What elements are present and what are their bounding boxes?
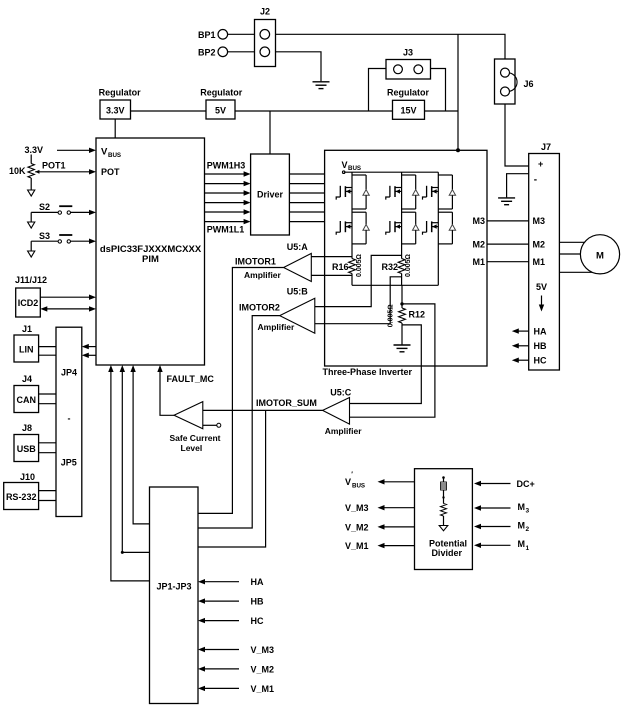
svg-text:2: 2 xyxy=(526,526,530,533)
block Driver xyxy=(251,154,290,235)
wire U5:A input top across R16 xyxy=(311,256,352,258)
wire FAULT_MC comparator output to PIM xyxy=(157,365,174,415)
svg-text:Amplifier: Amplifier xyxy=(258,322,296,332)
svg-text:R32: R32 xyxy=(381,262,398,272)
svg-text:J3: J3 xyxy=(403,48,413,58)
wire inverter leg3 xyxy=(437,172,439,285)
connector J4 CAN xyxy=(14,374,39,413)
wire BP1 to J2 xyxy=(228,33,255,35)
wire J7 to motor phase top xyxy=(559,241,586,243)
svg-text:Divider: Divider xyxy=(431,548,462,558)
svg-text:V_M2: V_M2 xyxy=(345,522,369,532)
svg-text:IMOTOR1: IMOTOR1 xyxy=(235,256,276,266)
svg-text:Three-Phase Inverter: Three-Phase Inverter xyxy=(323,367,413,377)
svg-text:Driver: Driver xyxy=(257,190,284,200)
svg-text:V: V xyxy=(345,477,351,487)
svg-text:3: 3 xyxy=(526,508,530,515)
resistor R32 0.005 ohm shunt xyxy=(381,254,412,285)
switch S2 xyxy=(28,202,73,228)
svg-text:PWM1L1: PWM1L1 xyxy=(207,224,245,234)
wire J3 right to 15V rail xyxy=(431,69,446,112)
svg-text:10K: 10K xyxy=(9,166,26,176)
wire HB into JP1-JP3 xyxy=(198,597,264,607)
regulator 15V xyxy=(387,87,430,119)
wire inverter leg1 xyxy=(351,172,353,258)
block Potential Divider xyxy=(415,469,473,570)
transistor Q5 (MOSFET with freewheel diode) xyxy=(423,175,456,209)
svg-text:J4: J4 xyxy=(22,374,32,384)
svg-text:R16: R16 xyxy=(332,262,349,272)
wire V_M1 output of potential divider xyxy=(345,541,415,551)
svg-text:BUS: BUS xyxy=(108,152,121,159)
svg-text:HB: HB xyxy=(534,341,547,351)
wire inverter leg2 xyxy=(401,172,403,258)
svg-text:0.005Ω: 0.005Ω xyxy=(356,254,363,277)
wire M2 inverter to J7 xyxy=(487,243,529,245)
wire IMOTOR_SUM branch to JP1-JP3 xyxy=(198,410,266,547)
wire power rail xyxy=(131,110,459,112)
svg-text:0.005Ω: 0.005Ω xyxy=(405,254,412,277)
svg-text:HA: HA xyxy=(251,577,264,587)
svg-text:3.3V: 3.3V xyxy=(25,145,44,155)
wire S3 to PIM xyxy=(71,239,97,244)
svg-text:HB: HB xyxy=(251,597,264,607)
svg-text:U5:C: U5:C xyxy=(330,388,352,398)
potentiometer POT1 10K xyxy=(9,155,66,197)
ground under J2 xyxy=(313,81,330,83)
wire IMOTOR2 U5:B output to JP1-JP3 xyxy=(198,316,280,528)
svg-text:S3: S3 xyxy=(39,231,50,241)
wire J2 node to inverter VBUS rail xyxy=(457,34,459,150)
wire J7 to motor phase bottom xyxy=(559,271,593,273)
node VBUS inside inverter xyxy=(342,160,362,174)
wire M2 input of potential divider xyxy=(474,520,530,533)
svg-text:+: + xyxy=(538,159,543,169)
svg-text:M1: M1 xyxy=(472,257,485,267)
wire HA into JP1-JP3 xyxy=(198,577,264,587)
regulator 5V xyxy=(200,87,243,119)
wire M3 inverter to J7 xyxy=(487,220,529,222)
svg-text:IMOTOR_SUM: IMOTOR_SUM xyxy=(256,398,317,408)
svg-text:BUS: BUS xyxy=(348,165,361,172)
terminal BP1 xyxy=(198,30,228,41)
svg-text:PIM: PIM xyxy=(142,254,159,265)
comparator Safe Current Level xyxy=(169,402,220,453)
wire U5:B input bottom from R32 bottom xyxy=(315,277,402,324)
svg-text:M: M xyxy=(518,502,526,512)
connector J6 xyxy=(495,59,534,104)
svg-text:V_M1: V_M1 xyxy=(251,684,275,694)
terminal reference input xyxy=(203,423,221,427)
wire J6 to J7 plus xyxy=(505,104,529,166)
svg-text:JP1-JP3: JP1-JP3 xyxy=(156,581,191,591)
svg-text:5V: 5V xyxy=(536,282,547,292)
transistor Q1 (MOSFET with freewheel diode) xyxy=(336,175,369,209)
svg-text:-: - xyxy=(68,413,71,423)
wire U5:C input top from R12 bottom xyxy=(350,325,422,404)
wire DC+ input of potential divider xyxy=(474,479,535,489)
svg-text:BP1: BP1 xyxy=(198,30,216,40)
connector J10 RS-232 xyxy=(4,472,39,510)
wire S2 to PIM xyxy=(71,210,97,215)
connector J11/J12 ICD2 xyxy=(15,275,47,317)
junction dot R12 top xyxy=(400,302,403,305)
svg-text:M: M xyxy=(518,539,526,549)
svg-text:R12: R12 xyxy=(409,309,426,319)
svg-text:V_M3: V_M3 xyxy=(345,503,369,513)
svg-text:DC+: DC+ xyxy=(517,479,535,489)
svg-text:HC: HC xyxy=(534,356,547,366)
wire 3.3V regulator to PIM xyxy=(114,119,116,138)
wire M3 input of potential divider xyxy=(474,502,530,515)
resistor R12 0.005 ohm shunt xyxy=(388,304,426,327)
svg-text:JP4: JP4 xyxy=(61,368,77,378)
svg-text:JP5: JP5 xyxy=(61,457,77,467)
wire 3.3V to PIM VBUS with arrow xyxy=(57,148,96,153)
svg-text:J2: J2 xyxy=(260,7,270,17)
svg-text:Level: Level xyxy=(181,443,203,453)
svg-text:J7: J7 xyxy=(541,142,551,152)
wire R12 to ground xyxy=(401,325,403,345)
svg-text:POT1: POT1 xyxy=(42,160,66,170)
wire hall sensor HB out of J7 xyxy=(512,341,547,351)
terminal BP2 xyxy=(198,47,228,57)
connector J2 xyxy=(255,7,276,67)
svg-text:J1: J1 xyxy=(22,324,32,334)
svg-text:S2: S2 xyxy=(39,202,50,212)
svg-text:5V: 5V xyxy=(215,105,226,115)
ground under R12 xyxy=(394,344,411,346)
wire U5:C input bottom from R12 top xyxy=(350,304,435,417)
svg-text:3.3V: 3.3V xyxy=(106,105,125,115)
svg-text:M3: M3 xyxy=(533,216,546,226)
wire inverter VBUS rail xyxy=(344,171,439,173)
connector J1 LIN xyxy=(14,324,39,362)
svg-text:V_M1: V_M1 xyxy=(345,541,369,551)
resistor R16 0.005 ohm shunt xyxy=(332,254,363,285)
transistor Q3 (MOSFET with freewheel diode) xyxy=(386,175,419,209)
wire bottom rail to R12 xyxy=(401,285,403,304)
svg-text:1: 1 xyxy=(526,545,530,552)
wire J3 left to 15V rail xyxy=(369,69,387,112)
motor M xyxy=(580,235,619,274)
wire J2 pin2 to ground xyxy=(276,52,322,82)
wire V_M3 into JP1-JP3 xyxy=(198,645,274,655)
svg-text:PWM1H3: PWM1H3 xyxy=(207,160,246,170)
wire V_BUS output of potential divider xyxy=(345,472,415,490)
wire J7 minus to ground xyxy=(507,174,529,198)
wire J7 to motor phase mid xyxy=(559,253,581,255)
svg-text:U5:A: U5:A xyxy=(287,242,309,252)
wire V_M2 into JP1-JP3 xyxy=(198,664,274,674)
svg-text:FAULT_MC: FAULT_MC xyxy=(167,374,215,384)
wire V_M2 output of potential divider xyxy=(345,522,415,532)
wire BP2 to J2 xyxy=(228,51,255,53)
connector J8 USB xyxy=(14,423,39,462)
wire ICD2 to PIM xyxy=(40,295,96,300)
svg-text:J11/J12: J11/J12 xyxy=(15,275,47,285)
wire JP4 to PIM upper xyxy=(82,344,96,349)
wire hall sensor HA out of J7 xyxy=(512,327,547,337)
svg-text:Regulator: Regulator xyxy=(387,87,430,97)
junction dot rail entry xyxy=(456,148,460,152)
transistor Q4 (MOSFET with freewheel diode) xyxy=(386,212,419,244)
svg-text:V: V xyxy=(342,160,348,170)
wire IMOTOR_SUM feedback to PIM xyxy=(130,365,149,524)
svg-text:Regulator: Regulator xyxy=(99,87,142,97)
op-amp U5:C amplifier xyxy=(323,388,363,436)
svg-text:M: M xyxy=(596,251,604,262)
svg-text:Amplifier: Amplifier xyxy=(244,270,282,280)
wire CAN to JP4 xyxy=(39,394,56,404)
regulator 3.3V xyxy=(99,87,142,119)
jumper block JP1-JP3 xyxy=(150,487,199,704)
wire IMOTOR1 U5:A output to JP1-JP3 xyxy=(198,268,284,514)
svg-text:POT: POT xyxy=(101,167,120,177)
transistor Q2 (MOSFET with freewheel diode) xyxy=(336,212,369,244)
wire J2 pin1 to J6 xyxy=(276,34,506,59)
svg-text:J8: J8 xyxy=(22,423,32,433)
wire hall sensor HC out of J7 xyxy=(512,356,547,366)
svg-text:BUS: BUS xyxy=(352,483,365,490)
wire IMOTOR1 feedback to PIM xyxy=(108,365,149,581)
wire POT1 wiper to PIM POT xyxy=(35,169,96,174)
wire 5V arrow inside J7 xyxy=(539,296,544,312)
module U1 dsPIC33FJXXXMCXXX PIM xyxy=(96,138,205,365)
svg-text:J10: J10 xyxy=(20,472,35,482)
wire V_M3 output of potential divider xyxy=(345,503,415,513)
svg-text:HA: HA xyxy=(534,327,547,337)
svg-text:BP2: BP2 xyxy=(198,47,216,57)
svg-text:HC: HC xyxy=(251,616,264,626)
svg-text:15V: 15V xyxy=(400,106,416,116)
svg-text:-: - xyxy=(534,175,537,186)
svg-text:V_M3: V_M3 xyxy=(251,645,275,655)
wire IMOTOR_SUM U5:C output to comparator xyxy=(203,409,323,411)
wire U5:A input bottom across R16 xyxy=(311,274,352,276)
switch S3 xyxy=(28,231,73,257)
svg-text:J6: J6 xyxy=(524,79,534,89)
svg-text:M1: M1 xyxy=(533,257,546,267)
svg-text:USB: USB xyxy=(17,444,37,454)
wire RS-232 to JP5 xyxy=(39,491,56,501)
wire IMOTOR2 feedback to PIM xyxy=(120,365,150,554)
wire PWM signals PIM to Driver xyxy=(205,171,251,224)
wire JP4 to PIM lower xyxy=(82,353,96,358)
wire USB to JP5 xyxy=(39,443,56,453)
connector J7 xyxy=(529,142,560,370)
wire U5:B input top from R32 top xyxy=(315,255,402,306)
svg-text:M: M xyxy=(518,520,526,530)
svg-text:M2: M2 xyxy=(472,239,485,249)
svg-text:M3: M3 xyxy=(472,216,485,226)
wire HC into JP1-JP3 xyxy=(198,616,264,626)
svg-text:RS-232: RS-232 xyxy=(6,492,37,502)
wire V_M1 into JP1-JP3 xyxy=(198,684,274,694)
svg-text:Regulator: Regulator xyxy=(200,87,243,97)
svg-text:U5:B: U5:B xyxy=(287,286,309,296)
op-amp U5:B amplifier xyxy=(258,286,315,333)
svg-text:LIN: LIN xyxy=(19,344,34,354)
connector J3 xyxy=(386,48,431,80)
resistor divider symbol inside xyxy=(439,476,448,531)
wire ICD2 PIM bidirectional xyxy=(40,306,96,311)
transistor Q6 (MOSFET with freewheel diode) xyxy=(423,212,456,244)
block Three-Phase Inverter xyxy=(325,150,487,366)
wire Driver outputs to inverter xyxy=(289,174,324,222)
op-amp U5:A amplifier xyxy=(244,242,311,282)
ground near J7 xyxy=(498,197,515,199)
wire LIN to JP4 xyxy=(39,347,56,356)
svg-text:V: V xyxy=(101,147,108,158)
wire rail to Driver xyxy=(269,111,271,154)
wire M1 inverter to J7 xyxy=(487,261,529,263)
svg-text:Potential: Potential xyxy=(429,538,467,548)
wire M1 input of potential divider xyxy=(474,539,530,552)
svg-text:ICD2: ICD2 xyxy=(18,298,39,308)
svg-text:CAN: CAN xyxy=(17,395,37,405)
wire inverter bottom rail xyxy=(352,284,438,286)
jumper block JP4-JP5 xyxy=(56,327,82,516)
svg-text:Safe Current: Safe Current xyxy=(169,433,220,443)
svg-text:IMOTOR2: IMOTOR2 xyxy=(239,303,280,313)
svg-text:M2: M2 xyxy=(533,239,546,249)
svg-text:V_M2: V_M2 xyxy=(251,664,275,674)
svg-text:Amplifier: Amplifier xyxy=(325,426,363,436)
